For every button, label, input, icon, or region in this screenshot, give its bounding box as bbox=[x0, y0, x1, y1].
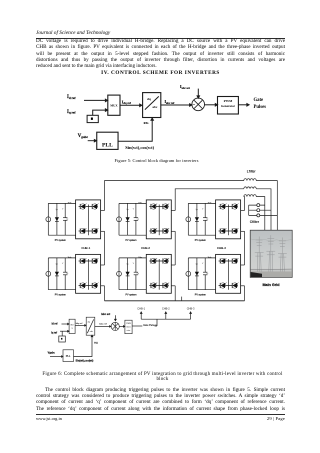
output stub wires cell 1a bbox=[101, 211, 105, 232]
bridge internal link wires cell 2a bbox=[149, 205, 168, 236]
IGBT Q33a bbox=[220, 228, 226, 234]
svg-text:Gene: Gene bbox=[126, 327, 130, 329]
label CHB-2 gate feed bbox=[162, 306, 170, 310]
output stub wires cell 3a bbox=[241, 211, 245, 232]
svg-text:PV system: PV system bbox=[55, 239, 66, 242]
block PLL bbox=[97, 132, 118, 149]
IGBT Q13a bbox=[220, 204, 226, 210]
svg-text:X: X bbox=[71, 328, 73, 330]
multiplier junction 2 bbox=[111, 322, 119, 330]
diode D1b bbox=[55, 258, 59, 290]
node Sin(wt),cos(wt) label (control) bbox=[76, 360, 94, 363]
svg-text:PV system: PV system bbox=[195, 293, 206, 296]
IGBT Q23a bbox=[232, 204, 238, 210]
IGBT Q32a bbox=[151, 228, 157, 234]
label CHB-3 (phase C bridges) bbox=[217, 246, 226, 250]
node Iq_ref label (control) bbox=[51, 332, 57, 335]
multiplexer MUX2 bbox=[69, 319, 75, 333]
footer left: site bbox=[36, 416, 62, 421]
IGBT Q43a bbox=[232, 228, 238, 234]
label PV system cell 3b bbox=[195, 293, 206, 296]
wire Vgabc to PLL2 bbox=[50, 356, 63, 358]
H-bridge module U1b bbox=[76, 254, 101, 293]
wire dq/abc to multiplier, node Iabc_ref bbox=[161, 100, 192, 106]
svg-text:Ipv: Ipv bbox=[126, 263, 128, 265]
wire phase-C bus to Lfilter bbox=[243, 197, 246, 211]
capacitor C3b bbox=[203, 258, 207, 290]
wire phase-B bus to Lfilter bbox=[175, 189, 244, 211]
wire gate arrow CHB-2 bbox=[165, 312, 167, 319]
wire L2 to grid bbox=[256, 189, 271, 230]
bridge internal link wires cell 3b bbox=[219, 259, 238, 290]
svg-text:V: V bbox=[62, 209, 64, 211]
wire phase-A bus to Lfilter bbox=[105, 181, 244, 211]
caption figure 6 bbox=[22, 372, 303, 382]
capacitor Cf1 bbox=[249, 204, 265, 207]
PV equivalent loop wires cell 3b bbox=[188, 258, 215, 290]
wire dq/abc2 to multiplier2, node Iabc_ref bbox=[95, 324, 111, 328]
wire PLL2 to dq/abc2 bbox=[74, 335, 93, 356]
svg-text:Cp: Cp bbox=[66, 273, 68, 275]
svg-text:V: V bbox=[202, 263, 204, 265]
svg-text:CHB-3: CHB-3 bbox=[187, 306, 195, 310]
footer rule bbox=[36, 414, 285, 415]
svg-text:PLL: PLL bbox=[66, 354, 71, 358]
IGBT Q23b bbox=[232, 258, 238, 264]
wire series link phase C bbox=[244, 231, 246, 265]
svg-text:Ipv: Ipv bbox=[56, 209, 58, 211]
IGBT Q31a bbox=[80, 228, 86, 234]
body paragraph 2 bbox=[36, 387, 285, 412]
wire L1 to grid bbox=[256, 181, 277, 231]
bridge internal link wires cell 1a bbox=[79, 205, 98, 236]
bridge internal link wires cell 2b bbox=[149, 259, 168, 290]
PV current source PV2a bbox=[117, 217, 122, 222]
wire Id_ref to MUX bbox=[84, 99, 108, 101]
H-bridge module U2a bbox=[146, 200, 171, 239]
svg-text:Cp: Cp bbox=[137, 273, 139, 275]
wire Iabc_act down into multiplier bbox=[197, 89, 199, 99]
transform block dq/abc bbox=[143, 93, 161, 118]
PV current source PV1a bbox=[46, 217, 51, 222]
svg-text:Cp: Cp bbox=[66, 219, 68, 221]
multiplexer MUX bbox=[108, 95, 120, 115]
svg-text:PV system: PV system bbox=[126, 293, 137, 296]
svg-text:Idq ref: Idq ref bbox=[76, 323, 83, 325]
H-bridge module U3b bbox=[216, 254, 241, 293]
header rule bbox=[36, 38, 285, 39]
svg-text:Cp: Cp bbox=[206, 273, 208, 275]
capacitor C1b bbox=[63, 258, 67, 290]
value labels Ipv, Cpv, Vdc cell 1a bbox=[56, 202, 73, 220]
label CHB-1 gate feed bbox=[137, 306, 145, 310]
svg-text:CHB-2: CHB-2 bbox=[162, 306, 170, 310]
IGBT Q41b bbox=[92, 283, 98, 289]
IGBT Q22a bbox=[163, 204, 169, 210]
zero-reference box (control) bbox=[59, 331, 66, 342]
svg-text:Vgabc: Vgabc bbox=[48, 351, 56, 354]
body paragraph 1 bbox=[36, 38, 285, 69]
IGBT Q42b bbox=[163, 283, 169, 289]
capacitor C2a bbox=[134, 203, 138, 235]
IGBT Q13b bbox=[220, 258, 226, 264]
wire L3 to grid bbox=[256, 197, 265, 231]
svg-text:V: V bbox=[202, 209, 204, 211]
H-bridge module U2b bbox=[146, 254, 171, 293]
node Iabc_act label (control) bbox=[101, 313, 110, 316]
wire series link phase A (row1 to row2) bbox=[104, 231, 106, 265]
IGBT Q42a bbox=[163, 228, 169, 234]
transform block dq/abc 2 bbox=[86, 317, 95, 335]
footer right: page number bbox=[36, 416, 285, 421]
node Iabc_act label bbox=[180, 85, 190, 90]
PV equivalent loop wires cell 1b bbox=[48, 258, 75, 290]
node Iq_ref input label bbox=[67, 110, 76, 115]
inductor L1 bbox=[244, 179, 256, 181]
IGBT Q12b bbox=[151, 258, 157, 264]
PV current source PV1b bbox=[46, 271, 51, 276]
IGBT Q12a bbox=[151, 204, 157, 210]
wire PWM output bbox=[238, 104, 249, 106]
svg-text:V: V bbox=[133, 263, 135, 265]
node Id_ref label (control) bbox=[52, 323, 58, 326]
svg-text:V: V bbox=[133, 209, 135, 211]
svg-text:Main Grid: Main Grid bbox=[262, 283, 280, 287]
label PV system cell 1a bbox=[55, 239, 66, 242]
svg-text:Iabc ref: Iabc ref bbox=[99, 324, 107, 326]
wire multiplier to PWM generator bbox=[205, 104, 218, 106]
value labels Ipv, Cpv, Vdc cell 3b bbox=[196, 257, 213, 275]
svg-text:V: V bbox=[62, 263, 64, 265]
label CHB-1 (phase A bridges) bbox=[81, 246, 90, 250]
svg-text:Cp: Cp bbox=[206, 219, 208, 221]
node Vgabc input label bbox=[78, 134, 89, 139]
IGBT Q21a bbox=[92, 204, 98, 210]
svg-text:PWM: PWM bbox=[126, 323, 131, 325]
IGBT Q41a bbox=[92, 228, 98, 234]
svg-text:Ipv: Ipv bbox=[196, 263, 198, 265]
label PV system cell 2b bbox=[126, 293, 137, 296]
output stub wires cell 2a bbox=[171, 211, 175, 232]
svg-text:Lfilter: Lfilter bbox=[247, 170, 257, 174]
section heading bbox=[36, 70, 285, 76]
PV current source PV3b bbox=[186, 271, 191, 276]
svg-text:Cp: Cp bbox=[137, 219, 139, 221]
svg-text:Ipv: Ipv bbox=[126, 209, 128, 211]
value labels Ipv, Cpv, Vdc cell 1b bbox=[56, 257, 73, 275]
label Main Grid bbox=[262, 283, 280, 287]
wire Iabc_act into multiplier2 bbox=[115, 315, 117, 321]
svg-text:Sin(wt),cos(wt): Sin(wt),cos(wt) bbox=[76, 360, 94, 363]
capacitor C3a bbox=[203, 203, 207, 235]
node Sin(wt),cos(wt) label bbox=[125, 145, 154, 150]
IGBT Q22b bbox=[163, 258, 169, 264]
svg-text:Ipv: Ipv bbox=[56, 263, 58, 265]
svg-text:CHB-1: CHB-1 bbox=[137, 306, 145, 310]
running head: journal title bbox=[36, 30, 110, 36]
wire Iq_ref to MUX2 bbox=[60, 330, 69, 332]
bridge internal link wires cell 1b bbox=[79, 259, 98, 290]
IGBT Q32b bbox=[151, 283, 157, 289]
H-bridge module U3a bbox=[216, 200, 241, 239]
wire PWM2 output, node Gate Pulses bbox=[132, 324, 157, 327]
IGBT Q33b bbox=[220, 283, 226, 289]
label Cfilter bbox=[250, 220, 260, 224]
H-bridge module U1a bbox=[76, 200, 101, 239]
caption figure 5 bbox=[32, 158, 281, 163]
value labels Ipv, Cpv, Vdc cell 2a bbox=[126, 202, 143, 220]
capacitor Cf2 bbox=[249, 209, 271, 212]
wire multiplier2 to PWM2 bbox=[119, 326, 125, 328]
svg-text:abc: abc bbox=[90, 331, 93, 333]
PV equivalent loop wires cell 2a bbox=[119, 203, 146, 235]
value labels Ipv, Cpv, Vdc cell 3a bbox=[196, 202, 213, 220]
svg-text:dq: dq bbox=[88, 322, 90, 324]
svg-text:P.U.: P.U. bbox=[94, 342, 98, 344]
svg-text:Gate Pulses: Gate Pulses bbox=[143, 324, 157, 327]
diode D2a bbox=[126, 203, 130, 235]
wire Vgabc to PLL bbox=[88, 140, 97, 142]
bridge internal link wires cell 3a bbox=[219, 205, 238, 236]
inductor L3 bbox=[244, 195, 256, 197]
IGBT Q21b bbox=[92, 258, 98, 264]
svg-text:Cfilter: Cfilter bbox=[250, 220, 260, 224]
IGBT Q31b bbox=[80, 283, 86, 289]
wire MUX2 to dq/abc2, node Idq_ref bbox=[75, 323, 86, 326]
block PLL 2 bbox=[63, 350, 74, 362]
value labels Ipv, Cpv, Vdc cell 2b bbox=[126, 257, 143, 275]
label CHB-2 (phase B bridges) bbox=[141, 246, 150, 250]
svg-text:Iq ref: Iq ref bbox=[51, 332, 57, 335]
diode D2b bbox=[126, 258, 130, 290]
label Lfilter bbox=[247, 170, 257, 174]
svg-text:rator: rator bbox=[127, 329, 131, 332]
wire series link phase B bbox=[174, 231, 176, 265]
block PWM Generator 2 bbox=[125, 320, 132, 334]
svg-text:CHB-2: CHB-2 bbox=[141, 246, 150, 250]
PV current source PV3a bbox=[186, 217, 191, 222]
wire neutral drops and bus bbox=[105, 286, 245, 301]
output stub wires cell 2b bbox=[171, 265, 175, 286]
diode D3a bbox=[195, 203, 199, 235]
wire Cfilter common bus bbox=[248, 205, 250, 215]
wire Id_ref to MUX2 bbox=[62, 323, 70, 325]
node P.U. label (control) bbox=[94, 342, 98, 344]
IGBT Q11a bbox=[80, 204, 86, 210]
svg-text:CHB-3: CHB-3 bbox=[217, 246, 226, 250]
label CHB-3 gate feed bbox=[187, 306, 195, 310]
PV current source PV2b bbox=[117, 271, 122, 276]
output stub wires cell 1b bbox=[101, 265, 105, 286]
wire gate arrow CHB-1 bbox=[140, 312, 142, 319]
output stub wires cell 3b bbox=[241, 265, 245, 286]
node Gate Pulses output label bbox=[254, 98, 267, 110]
PV equivalent loop wires cell 3a bbox=[188, 203, 215, 235]
IGBT Q11b bbox=[80, 258, 86, 264]
capacitor Cf3 bbox=[249, 214, 278, 217]
label PV system cell 2a bbox=[126, 239, 137, 242]
IGBT Q43b bbox=[232, 283, 238, 289]
multiplier junction (circle with X) bbox=[192, 98, 205, 111]
wire PLL output to dq/abc block bbox=[118, 118, 153, 141]
wire MUX to dq/abc, node Idq_ref bbox=[120, 99, 142, 106]
diode D3b bbox=[195, 258, 199, 290]
block PWM Generator bbox=[218, 97, 239, 115]
svg-text:CHB-1: CHB-1 bbox=[81, 246, 90, 250]
capacitor C2b bbox=[134, 258, 138, 290]
svg-text:PV system: PV system bbox=[126, 239, 137, 242]
zero-reference box (q-axis setpoint) bbox=[87, 115, 98, 122]
svg-text:PV system: PV system bbox=[195, 239, 206, 242]
svg-text:Id ref: Id ref bbox=[52, 323, 58, 326]
label PV system cell 3a bbox=[195, 239, 206, 242]
main grid photograph bbox=[250, 230, 292, 277]
PV equivalent loop wires cell 1a bbox=[48, 203, 75, 235]
wire gate arrow CHB-3 bbox=[190, 312, 192, 319]
wire zero box to MUX bbox=[93, 109, 108, 115]
PV equivalent loop wires cell 2b bbox=[119, 258, 146, 290]
node P.U. label bbox=[144, 121, 150, 125]
svg-text:MU: MU bbox=[71, 324, 75, 326]
label PV system cell 1b bbox=[55, 293, 66, 296]
capacitor C1a bbox=[63, 203, 67, 235]
svg-text:PV system: PV system bbox=[55, 293, 66, 296]
inductor L2 bbox=[244, 187, 256, 189]
svg-text:Iabc act: Iabc act bbox=[101, 313, 110, 316]
wire gate pulse distribution bracket bbox=[141, 319, 190, 326]
node Vgabc label (control) bbox=[48, 351, 56, 354]
node Id_ref input label bbox=[67, 95, 76, 100]
svg-text:Ipv: Ipv bbox=[196, 209, 198, 211]
diode D1a bbox=[55, 203, 59, 235]
